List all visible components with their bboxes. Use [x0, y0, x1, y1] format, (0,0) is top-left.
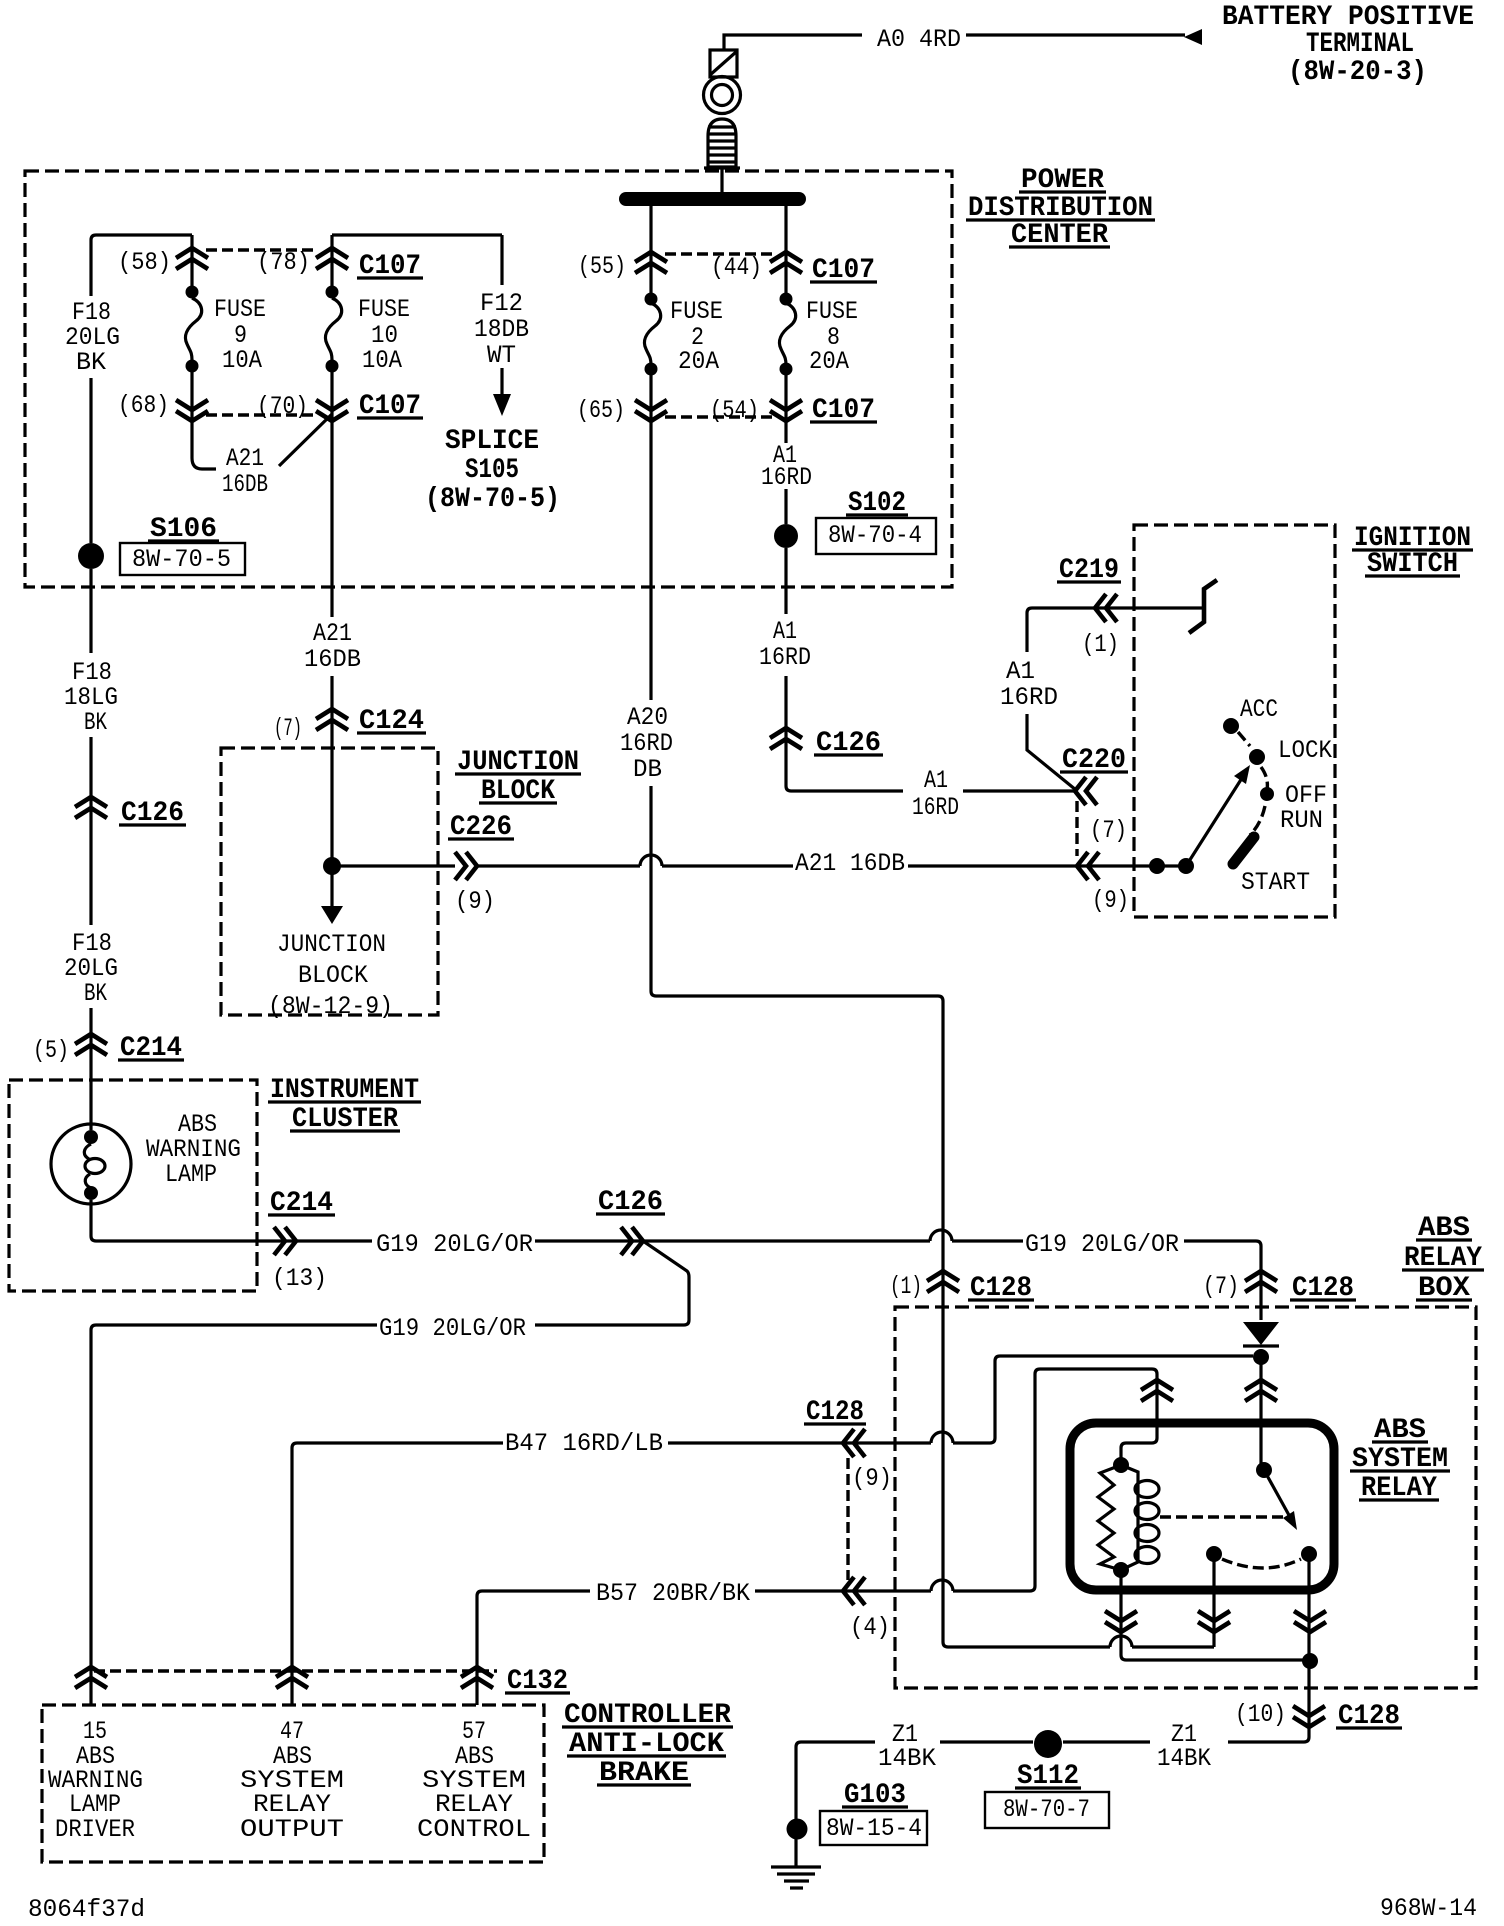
svg-text:(7): (7)	[1090, 816, 1127, 845]
svg-text:FUSE: FUSE	[670, 297, 723, 326]
svg-text:(4): (4)	[850, 1613, 890, 1642]
svg-text:FUSE: FUSE	[214, 295, 266, 324]
svg-text:FUSE: FUSE	[806, 297, 858, 326]
wire F18 below PDC to instrument cluster	[89, 737, 92, 1130]
connector C107 cavity 70	[316, 400, 348, 421]
dashed link C107 top row left	[206, 248, 318, 251]
dashed detent arc ACC-LOCK-OFF-START	[1238, 732, 1267, 835]
node Z1 takeoff	[1302, 1653, 1318, 1669]
lamp bottom terminal	[84, 1186, 98, 1200]
connector C107 cavity 65	[635, 400, 667, 421]
ABS warning lamp bulb	[51, 1124, 131, 1204]
POWER DISTRIBUTION CENTER dashed box	[25, 171, 952, 587]
connector C107 cavity 68	[176, 400, 208, 421]
svg-text:8W-70-5: 8W-70-5	[132, 545, 231, 574]
connector C128 cavity 10	[1293, 1706, 1325, 1727]
svg-text:START: START	[1241, 868, 1310, 897]
arrowhead wiper	[1234, 765, 1250, 784]
svg-text:ACC: ACC	[1240, 695, 1278, 724]
connector C214 cavity 5	[75, 1034, 107, 1055]
PDC bus bar	[619, 192, 806, 206]
wire A20 16RD DB from fuse 2 down and across to relay box	[651, 375, 1214, 1647]
fuse F8 bottom terminal	[780, 363, 793, 376]
node wiper pivot	[1178, 858, 1194, 874]
svg-text:A21 16DB: A21 16DB	[795, 849, 905, 878]
svg-text:A1: A1	[1006, 657, 1035, 686]
wire junction block internal arrow	[330, 872, 333, 906]
connector C128 cavity 9	[843, 1429, 865, 1457]
svg-text:(44): (44)	[711, 253, 762, 282]
battery stud bolt	[704, 119, 740, 168]
svg-text:20A: 20A	[678, 347, 719, 376]
connector C107 cavity 58	[176, 248, 208, 269]
svg-text:(10): (10)	[1235, 1700, 1286, 1729]
ground symbol G103	[771, 1867, 821, 1888]
svg-text:(8W-12-9): (8W-12-9)	[268, 992, 393, 1021]
wiper arrow toward LOCK	[1186, 778, 1242, 866]
ignition key symbol	[1189, 580, 1217, 633]
wire fuse 8 input from bus	[784, 206, 787, 295]
lamp top terminal	[84, 1130, 98, 1144]
wire hop A21 over A20	[640, 855, 662, 866]
svg-text:SPLICE: SPLICE	[445, 426, 539, 457]
contact LOCK	[1249, 749, 1265, 765]
ground node G103	[787, 1819, 808, 1840]
svg-text:(7): (7)	[274, 714, 302, 743]
svg-text:RUN: RUN	[1280, 806, 1323, 835]
INSTRUMENT CLUSTER dashed box	[9, 1080, 257, 1291]
wire A21 16DB junction block to ignition switch C220	[332, 864, 1186, 867]
svg-text:LAMP: LAMP	[165, 1160, 217, 1189]
connector C132 pin 57	[461, 1667, 493, 1688]
svg-text:16DB: 16DB	[304, 645, 361, 674]
START wiper arm	[1233, 837, 1254, 864]
wire G19 lamp to C214 and C126	[91, 1200, 1261, 1320]
relay coil bottom terminal	[1113, 1562, 1129, 1578]
svg-text:G19 20LG/OR: G19 20LG/OR	[1025, 1230, 1179, 1259]
wire B47 16RD/LB from pin 47 to diode junction	[292, 1356, 1253, 1705]
wire relay NO contact to C128 cavity 10	[1228, 1554, 1309, 1742]
ABS RELAY BOX dashed box	[895, 1307, 1476, 1688]
wire A21 16DB from fuse 10 down to C124	[330, 372, 333, 709]
svg-text:16RD: 16RD	[912, 793, 959, 822]
relay terminal chevron common	[1245, 1380, 1277, 1401]
svg-text:BK: BK	[76, 348, 106, 377]
wire diode junction to relay common	[1259, 1357, 1262, 1470]
wire fuse 10 input	[330, 235, 333, 286]
fuse F8 top terminal	[780, 293, 793, 306]
svg-text:BK: BK	[84, 708, 107, 737]
svg-text:(7): (7)	[1203, 1272, 1239, 1301]
svg-text:16RD: 16RD	[761, 463, 812, 492]
reference box G103 8W-15-4	[820, 1811, 927, 1845]
svg-text:(54): (54)	[710, 396, 759, 425]
fuse F2 top terminal	[645, 293, 658, 306]
connector C226 cavity 9	[455, 852, 477, 880]
fuse 8 element	[779, 303, 795, 365]
JUNCTION BLOCK dashed box	[221, 748, 438, 1015]
svg-text:16DB: 16DB	[222, 470, 268, 499]
svg-text:(68): (68)	[118, 391, 169, 420]
wire hop B57 over A20	[931, 1580, 953, 1591]
svg-text:G19 20LG/OR: G19 20LG/OR	[376, 1230, 533, 1259]
connector C128 cavity 4	[843, 1577, 865, 1605]
svg-text:OUTPUT: OUTPUT	[240, 1815, 344, 1844]
svg-text:BLOCK: BLOCK	[298, 961, 368, 990]
svg-text:10A: 10A	[222, 346, 262, 375]
svg-text:(65): (65)	[577, 396, 625, 425]
relay terminal chevron coil	[1141, 1380, 1173, 1401]
battery cable clamp	[710, 50, 737, 77]
connector C220 cavity 7	[1075, 777, 1097, 805]
connector C132 dashed row	[94, 1669, 497, 1672]
fuse 9 element	[185, 298, 201, 360]
svg-text:JUNCTION: JUNCTION	[277, 930, 386, 959]
svg-text:(5): (5)	[33, 1036, 69, 1065]
svg-text:DB: DB	[633, 755, 662, 784]
svg-text:G19 20LG/OR: G19 20LG/OR	[379, 1314, 526, 1343]
svg-text:8W-15-4: 8W-15-4	[826, 1814, 922, 1843]
wire fuse 2 input from bus	[649, 206, 652, 295]
svg-text:8W-70-4: 8W-70-4	[828, 521, 922, 550]
ABS system relay outline	[1070, 1423, 1334, 1590]
svg-text:(9): (9)	[455, 887, 495, 916]
CONTROLLER ANTI-LOCK BRAKE dashed box	[42, 1705, 544, 1862]
svg-text:20A: 20A	[809, 347, 849, 376]
arrowhead junction block (8W-12-9)	[321, 906, 343, 924]
wire A0 4RD to battery positive terminal	[724, 35, 1185, 50]
connector C107 cavity 55	[635, 252, 667, 273]
connector C126 on F18	[75, 797, 107, 818]
wire hop B47 over A20	[931, 1432, 953, 1443]
svg-text:A0 4RD: A0 4RD	[877, 25, 961, 54]
svg-text:16RD: 16RD	[1000, 683, 1058, 712]
junction block node	[323, 857, 341, 875]
wire hop A20 over coil wire	[1110, 1636, 1132, 1647]
relay NC throw node	[1206, 1546, 1222, 1562]
fuse 10 element	[325, 298, 341, 360]
fuse F9 bottom terminal	[186, 360, 199, 373]
svg-text:(9): (9)	[852, 1464, 892, 1493]
relay coil top terminal	[1113, 1457, 1129, 1473]
relay pin chevron coil low	[1105, 1611, 1137, 1632]
connector C126 on A1	[770, 728, 802, 749]
relay switch common node	[1256, 1462, 1272, 1478]
svg-text:(8W-70-5): (8W-70-5)	[425, 484, 560, 515]
svg-text:A1: A1	[924, 766, 948, 795]
wire F18 feed top horizontal	[91, 235, 192, 296]
svg-text:968W-14: 968W-14	[1380, 1894, 1477, 1923]
relay coil resistor zigzag	[1098, 1465, 1121, 1570]
svg-text:(78): (78)	[257, 248, 310, 277]
relay coil winding	[1121, 1465, 1159, 1570]
relay pin chevron NC	[1198, 1611, 1230, 1632]
svg-text:(58): (58)	[118, 248, 171, 277]
connector C220 cavity 9	[1077, 852, 1099, 880]
svg-text:B57 20BR/BK: B57 20BR/BK	[596, 1579, 750, 1608]
connector C107 cavity 54	[770, 400, 802, 421]
svg-text:(8W-20-3): (8W-20-3)	[1288, 57, 1427, 88]
relay switch arm	[1264, 1470, 1290, 1517]
svg-text:BK: BK	[84, 979, 107, 1008]
svg-text:(70): (70)	[257, 392, 308, 421]
connector C132 pin 15	[75, 1667, 107, 1688]
svg-text:(9): (9)	[1092, 886, 1129, 915]
arrow to splice S105	[493, 394, 511, 416]
svg-text:A1: A1	[773, 617, 797, 646]
contact OFF	[1260, 787, 1274, 801]
relay pin chevron NO	[1294, 1611, 1326, 1632]
reference box S106 8W-70-5	[120, 543, 245, 575]
dashed actuator link	[1160, 1515, 1292, 1518]
connector C214 cavity 13	[274, 1227, 296, 1255]
arrowhead relay arm	[1283, 1511, 1297, 1530]
svg-text:F12: F12	[480, 289, 523, 318]
wire B57 20BR/BK from pin 57 to relay coil	[477, 1369, 1157, 1705]
wire relay coil low side to ground node	[1121, 1570, 1309, 1660]
dashed throw arc	[1222, 1559, 1301, 1568]
svg-text:14BK: 14BK	[878, 1744, 936, 1773]
node on START feed	[1149, 858, 1165, 874]
reference box S102 8W-70-4	[816, 518, 936, 554]
wire F12 18DB WT drop	[500, 235, 503, 396]
wire fuse 9 output	[192, 372, 216, 469]
connector C128 cavity 1	[927, 1271, 959, 1292]
wire fuse 10 top feed from F12	[332, 233, 502, 236]
wire A1 16RD from fuse 8 to S102 and C126	[786, 375, 1075, 791]
diode CR1	[1243, 1322, 1279, 1346]
wire A21 into junction block	[330, 709, 333, 860]
wire relay NC pin down to A20	[1212, 1554, 1215, 1647]
fuse F9 top terminal	[186, 286, 199, 299]
wire stud to bus bar	[720, 167, 723, 192]
connector C128 cavity 7	[1245, 1271, 1277, 1292]
splice S106	[78, 543, 104, 569]
svg-text:(13): (13)	[272, 1264, 327, 1293]
svg-text:8064f37d: 8064f37d	[28, 1895, 145, 1924]
svg-text:A21: A21	[313, 619, 352, 648]
dashed link C107 bottom row left	[206, 413, 318, 416]
svg-text:14BK: 14BK	[1157, 1744, 1211, 1773]
connector C107 cavity 78	[316, 248, 348, 269]
wire G19 return from C126 down to lamp driver	[91, 1241, 689, 1705]
svg-text:10A: 10A	[362, 346, 402, 375]
node diode cathode junction	[1253, 1349, 1269, 1365]
svg-text:A20: A20	[627, 703, 668, 732]
wire A1 16RD branch to C219	[1027, 608, 1202, 790]
dashed link C107 bottom row right	[665, 415, 772, 418]
svg-text:S105: S105	[465, 455, 519, 486]
battery ring terminal	[704, 77, 741, 114]
wire hop G19 over A20	[930, 1230, 952, 1241]
wire fuse 9 input with connector C107 (58)	[190, 235, 193, 286]
splice S102	[774, 524, 798, 548]
svg-text:(1): (1)	[1082, 630, 1119, 659]
svg-text:(55): (55)	[578, 252, 626, 281]
svg-text:A21: A21	[226, 444, 264, 473]
connector C107 cavity 44	[770, 252, 802, 273]
svg-text:LOCK: LOCK	[1278, 736, 1332, 765]
fuse F10 top terminal	[326, 286, 339, 299]
svg-text:CONTROL: CONTROL	[417, 1815, 531, 1844]
svg-text:TERMINAL: TERMINAL	[1306, 29, 1414, 60]
fuse 2 element	[644, 303, 660, 365]
dashed link C107 top row right	[665, 252, 772, 255]
connector C124 cavity 7	[316, 709, 348, 730]
fuse F10 bottom terminal	[326, 360, 339, 373]
leader line A21 label to cavity 70	[279, 414, 332, 466]
contact ACC	[1223, 718, 1239, 734]
splice S112	[1034, 1730, 1062, 1758]
svg-text:(1): (1)	[890, 1272, 922, 1301]
reference box S112 8W-70-7	[985, 1792, 1109, 1828]
svg-text:16RD: 16RD	[620, 729, 673, 758]
connector C219 cavity 1	[1095, 594, 1117, 622]
fuse F2 bottom terminal	[645, 363, 658, 376]
svg-text:DRIVER: DRIVER	[55, 1815, 135, 1844]
off-page arrow to battery	[1184, 29, 1202, 45]
svg-text:WT: WT	[487, 341, 516, 370]
dashed link C128	[846, 1458, 849, 1580]
svg-text:FUSE: FUSE	[358, 295, 410, 324]
wire F18 20LG BK inside PDC	[89, 378, 92, 653]
relay NO throw node	[1301, 1546, 1317, 1562]
wire Z1 14BK to ground G103	[796, 1742, 1150, 1866]
lamp filament	[84, 1144, 105, 1188]
svg-text:8W-70-7: 8W-70-7	[1003, 1795, 1090, 1824]
svg-text:16RD: 16RD	[759, 643, 811, 672]
svg-text:B47 16RD/LB: B47 16RD/LB	[505, 1429, 663, 1458]
connector C126 on G19	[621, 1227, 643, 1255]
IGNITION SWITCH dashed box	[1134, 525, 1335, 917]
connector C132 pin 47	[276, 1667, 308, 1688]
svg-text:18DB: 18DB	[474, 315, 529, 344]
dashed link C220	[1075, 801, 1078, 856]
